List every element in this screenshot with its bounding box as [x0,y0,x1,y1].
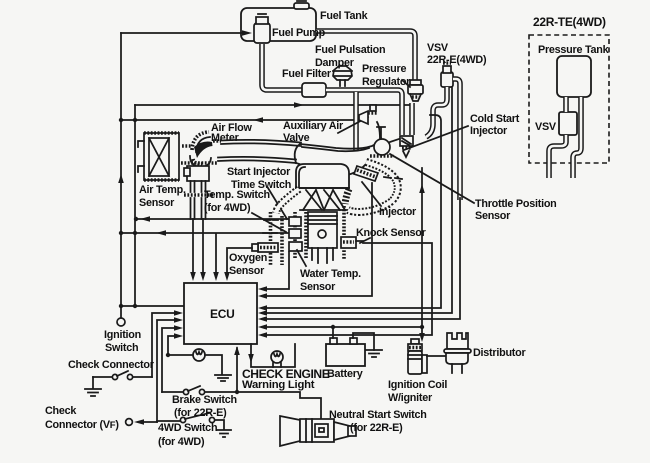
svg-text:Fuel Tank: Fuel Tank [320,10,369,22]
fuel pump [242,14,270,43]
svg-text:Throttle Position: Throttle Position [475,198,557,210]
svg-text:Ignition: Ignition [104,329,141,341]
leader knock sensor [360,238,370,243]
svg-text:Valve: Valve [283,132,310,144]
cold start injector component [400,136,413,157]
pipe fuel pump to fuel filter [262,44,302,90]
svg-text:Check Connector: Check Connector [68,359,155,371]
wire to neutral start switch [237,392,321,424]
intake tube upper wall [221,140,301,146]
svg-text:Sensor: Sensor [229,265,265,277]
wire bus y=219 [134,216,291,222]
wire bus y=306 into ECU [121,305,184,307]
pipe VSV inset outlet [549,135,566,178]
EFI warning lamp [170,349,231,381]
wire ECU right y=289 water temp sensor [258,252,289,292]
wire ECU right y=308 cold start injector [258,115,441,311]
leader start injector time switch [268,188,287,219]
svg-text:Distributor: Distributor [473,347,526,359]
wire oxygen sensor to ECU [224,248,252,281]
svg-text:Ignition Coil: Ignition Coil [388,379,447,391]
svg-text:Knock Sensor: Knock Sensor [356,227,427,239]
leader injector [362,182,381,206]
air flow meter outlet flanges [181,163,217,195]
leader throttle position sensor [390,154,474,203]
svg-text:VSV: VSV [427,42,449,54]
svg-text:Fuel Filter: Fuel Filter [282,68,332,80]
wire bus y=233 to ECU top [121,230,291,281]
dashed vacuum line [384,177,402,179]
svg-text:Warning Light: Warning Light [242,379,315,391]
svg-text:Cold Start: Cold Start [470,113,520,125]
fuel tank [241,1,316,41]
svg-text:22R-E(4WD): 22R-E(4WD) [427,54,487,66]
pipe pressure tank to VSV [563,97,569,112]
pipe fuel return tank to pressure regulator [316,31,415,81]
temp switch component [289,229,301,238]
distributor [444,333,471,373]
svg-text:Connector (VF): Connector (VF) [45,419,119,431]
air flow meter [182,132,221,167]
pipe pressure regulator outlet [409,103,415,135]
water temp sensor component [289,242,302,251]
svg-text:(for 4WD): (for 4WD) [204,202,251,214]
air temp sensor box [138,133,179,180]
svg-text:Check: Check [45,405,77,417]
start injector time switch component [289,217,301,226]
svg-text:Water Temp.: Water Temp. [300,268,361,280]
svg-text:Neutral Start Switch: Neutral Start Switch [329,409,427,421]
engine plenum outline [295,138,381,176]
check connector [85,371,152,396]
pipe VSV right rail x=460 [453,79,460,200]
leader water temp sensor [297,250,306,266]
pressure regulator [408,80,423,101]
check engine lamp [248,344,295,367]
auxiliary air valve component [359,105,380,140]
svg-text:Sensor: Sensor [300,281,336,293]
wire ECU right y=327 battery and coil [258,324,424,330]
svg-text:Auxiliary Air: Auxiliary Air [283,120,344,132]
VSV 22R-E(4WD) component [441,63,453,87]
valve cover [296,164,349,188]
VSV inset component [559,112,577,135]
ignition switch [117,318,125,326]
wire ECU right y=296 injector [258,183,372,299]
piston [308,212,337,263]
svg-text:Meter: Meter [211,132,240,144]
svg-text:Brake Switch: Brake Switch [172,394,237,406]
svg-text:(for 4WD): (for 4WD) [158,436,205,448]
wire left rail x=121 [118,30,251,317]
leader pressure regulator [402,80,410,87]
svg-text:Pressure: Pressure [362,63,406,75]
svg-text:4WD Switch: 4WD Switch [158,422,217,434]
svg-text:Battery: Battery [327,368,363,380]
wire ECU right y=319 pressure tank VSV [258,198,460,322]
4wd switch [157,413,231,437]
brake switch [162,386,237,395]
battery [326,327,382,366]
svg-text:Air Temp.: Air Temp. [139,184,186,196]
svg-text:(for 22R-E): (for 22R-E) [174,407,227,419]
ECU box [184,283,257,344]
svg-text:Start Injector: Start Injector [227,166,291,178]
svg-text:Fuel Pulsation: Fuel Pulsation [315,44,385,56]
wire ECU left y=336 from warning lamp [166,333,183,357]
pressure tank [557,56,591,97]
svg-text:Sensor: Sensor [475,210,511,222]
leader cold start injector [404,126,468,150]
leader auxiliary air valve [338,117,368,133]
svg-text:22R-TE(4WD): 22R-TE(4WD) [533,15,606,29]
22R-TE(4WD) inset dashed box [529,35,609,163]
svg-text:Switch: Switch [105,342,138,354]
engine cylinder port pipes [295,189,349,259]
cylinder head valves [296,188,349,210]
fuel pulsation damper [333,66,352,86]
wire bus y=120 [121,117,353,123]
neutral start switch transmission [280,416,356,446]
svg-text:Sensor: Sensor [139,197,175,209]
pipe VSV outlet down [426,87,447,137]
svg-text:VSV: VSV [535,121,557,133]
svg-text:(for 22R-E): (for 22R-E) [350,422,403,434]
svg-text:Temp. Switch: Temp. Switch [204,189,270,201]
svg-text:Injector: Injector [470,125,508,137]
check connector VF [126,419,157,426]
fuel injector [354,166,378,181]
svg-text:Injector: Injector [379,206,417,218]
wire ECU right y=335 knock sensor [258,243,432,338]
pipe meter outlet down to ECU [190,181,206,281]
wire x=422 up arrow to engine [419,168,425,327]
pipe fuel filter to fuel rail [326,90,402,150]
ignition coil [408,339,446,374]
wire ECU left y=313 from check connector [152,310,183,377]
throttle body [370,127,399,156]
svg-text:Pressure Tank: Pressure Tank [538,44,610,56]
wire ECU left y=320 from VF junction [157,317,183,422]
svg-text:ECU: ECU [210,307,234,321]
wire left rail x=135 [133,105,137,308]
intake runner right [348,162,398,212]
wire ECU bottom up arrow [234,346,240,394]
dash-dot marks [263,220,278,233]
leader temp switch [252,213,286,232]
svg-text:Oxygen: Oxygen [229,252,267,264]
wire ECU left y=328 from brake switch [162,325,183,392]
svg-text:W/igniter: W/igniter [388,392,433,404]
svg-text:Fuel Pump: Fuel Pump [272,27,326,39]
wire ECU right y=313 VSV [258,88,452,316]
wire x=422 down to ignition coil [419,327,425,342]
wire bus y=105 [135,102,410,108]
exhaust runner left with oxygen sensor [252,189,299,265]
intake tube lower wall [218,157,296,163]
knock sensor component [341,237,363,248]
pipe pressure tank right down [573,97,581,178]
fuel filter [302,83,326,97]
